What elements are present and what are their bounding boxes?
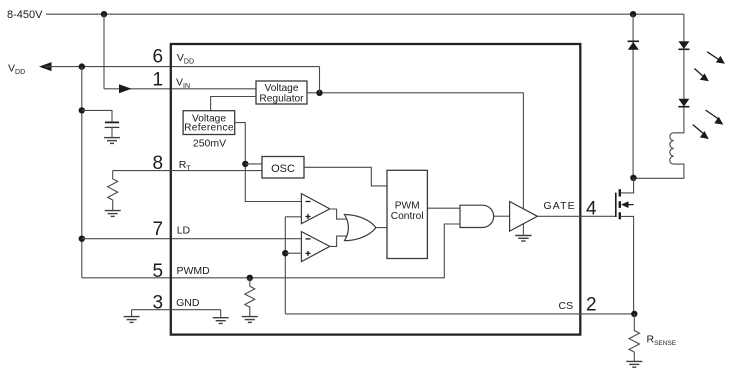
wire and output <box>494 215 510 217</box>
or gate U6 <box>345 215 377 241</box>
minus comp1 <box>306 201 311 203</box>
wire vref to osc <box>245 163 262 165</box>
wire LED branch top <box>683 14 685 41</box>
LED D3 <box>678 99 689 107</box>
svg-text:Regulator: Regulator <box>259 93 304 104</box>
wire LD line <box>82 238 302 240</box>
minus comp2 <box>306 238 311 240</box>
buffer U9 <box>510 202 538 232</box>
wire vdd to driver <box>522 93 524 236</box>
svg-text:2: 2 <box>586 294 597 315</box>
wire inductor bottom <box>634 164 684 178</box>
node cap branch <box>79 107 85 113</box>
wire or output <box>376 227 387 229</box>
wire vreg to vref <box>211 97 256 111</box>
node VDD branch <box>79 63 85 69</box>
node junction top rail to diode <box>630 11 636 17</box>
svg-text:PWM: PWM <box>395 201 420 212</box>
arrow VDD out <box>39 62 52 71</box>
svg-text:GATE: GATE <box>544 200 576 212</box>
svg-text:OSC: OSC <box>271 163 295 175</box>
wire GND pin <box>132 309 221 311</box>
ground buffer <box>515 236 531 242</box>
svg-text:6: 6 <box>153 47 164 68</box>
arrow into VIN <box>119 84 132 93</box>
voltage regulator U2 <box>256 81 307 104</box>
svg-text:5: 5 <box>153 261 164 282</box>
voltage reference U3 <box>183 111 235 135</box>
wire comp2 output <box>330 236 347 246</box>
resistor RSENSE <box>629 314 639 362</box>
node comp2 plus <box>282 250 288 256</box>
inductor L1 <box>670 133 674 164</box>
svg-text:LD: LD <box>177 224 191 236</box>
wire to capacitor <box>82 110 112 122</box>
wire top VIN rail <box>46 13 684 15</box>
svg-text:Control: Control <box>391 211 424 222</box>
comparator U5 <box>301 232 329 262</box>
wire CS feedback vertical <box>284 217 286 314</box>
node CS junction <box>631 311 637 317</box>
ground RT resistor <box>105 211 121 217</box>
wire pwm output <box>427 207 460 209</box>
wire osc output <box>304 167 387 186</box>
node VDD to LD <box>79 236 85 242</box>
and gate U8 <box>460 205 494 227</box>
LED D2 arrows <box>694 52 721 78</box>
plus comp2 <box>306 251 311 256</box>
node vreg out to pin6 <box>316 90 322 96</box>
resistor RT <box>108 171 118 211</box>
wire vreg output VDD internal <box>307 92 523 94</box>
wire comp1 output <box>330 209 347 219</box>
svg-text:8-450V: 8-450V <box>7 9 43 21</box>
LED D2 <box>678 41 689 49</box>
wire comp1 plus input <box>285 216 301 218</box>
wire drain <box>620 178 634 193</box>
wire pin1 VIN <box>104 88 256 90</box>
mosfet Q1 <box>616 189 634 219</box>
ground cap <box>104 138 120 144</box>
ground external <box>124 317 140 323</box>
ground internal <box>213 318 229 324</box>
wire LED to inductor <box>674 107 684 133</box>
node vref to osc <box>242 161 248 167</box>
svg-text:1: 1 <box>153 70 164 91</box>
svg-text:250mV: 250mV <box>193 138 226 150</box>
LED D3 arrows <box>693 110 720 135</box>
wire source <box>620 216 634 314</box>
oscillator OSC <box>262 157 304 179</box>
wire vref output <box>236 123 302 202</box>
ground RSENSE <box>626 361 642 367</box>
svg-text:PWMD: PWMD <box>177 265 211 277</box>
wire gnd left drop <box>131 310 133 317</box>
IC body U1 <box>171 44 581 335</box>
wire comp2 plus input <box>285 252 301 254</box>
wire LED middle <box>683 49 685 99</box>
wire diode branch <box>632 14 634 178</box>
wire CS line <box>285 313 634 315</box>
svg-text:Reference: Reference <box>184 123 234 134</box>
wire pin6 riser <box>319 67 321 93</box>
diode D1 freewheel <box>628 41 639 50</box>
node drain junction <box>630 175 636 181</box>
wire GATE <box>537 215 615 217</box>
wire VIN drop <box>103 14 105 89</box>
wire VDD vertical <box>81 67 83 278</box>
wire VDD pin6 <box>45 66 320 68</box>
wire RT line <box>113 170 262 172</box>
capacitor C1 <box>105 122 120 137</box>
svg-text:GND: GND <box>176 297 200 309</box>
ground PWMD resistor <box>242 317 258 323</box>
node junction top rail to VIN <box>101 11 107 17</box>
svg-text:7: 7 <box>153 219 164 240</box>
pwm control U7 <box>387 170 427 258</box>
comparator U4 <box>301 194 329 224</box>
wire gnd right drop <box>220 310 222 318</box>
resistor on PWMD <box>245 278 255 317</box>
node PWMD resistor <box>247 275 253 281</box>
svg-text:3: 3 <box>153 293 164 314</box>
svg-text:CS: CS <box>559 300 574 312</box>
plus comp1 <box>306 214 311 219</box>
wire PWMD line <box>82 224 460 278</box>
